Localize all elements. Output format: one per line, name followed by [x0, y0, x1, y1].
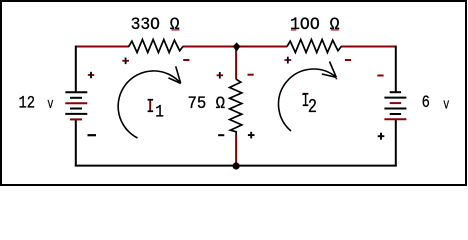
wire left rail bottom (battery B1 negative lead) — [75, 119, 77, 166]
polarity + at battery B1 top — [88, 72, 94, 78]
polarity + at R3 left — [284, 57, 291, 64]
polarity + at battery B2 bottom — [378, 133, 385, 140]
polarity - at R3 right — [345, 59, 351, 61]
junction node 2 dot (top) — [233, 42, 241, 51]
wire node 2 to R3 — [236, 46, 287, 48]
wire R1 to node 2 — [183, 46, 237, 48]
polarity + at R1 left — [122, 58, 129, 65]
polarity - at R2 top-right — [248, 74, 254, 76]
border frame — [1, 1, 466, 185]
svg-text:1: 1 — [155, 101, 164, 122]
red artifact under 330 ohm label — [172, 29, 180, 30]
svg-text:75 Ω: 75 Ω — [188, 93, 226, 113]
red artifact under 100 ohm label digit 1 — [291, 29, 297, 30]
junction node dot (bottom) — [233, 162, 240, 169]
resistor R3 100 ohm zigzag — [287, 40, 341, 53]
resistor R1 330 ohm zigzag — [129, 40, 183, 53]
battery B1 (12 V) plates — [65, 92, 87, 119]
wire node 2 to R2 top — [235, 47, 237, 80]
svg-text:12: 12 — [19, 93, 36, 113]
mesh arrow I1 (left loop, clockwise) — [118, 66, 181, 138]
wire left rail top (battery B1 positive lead) — [75, 46, 77, 93]
svg-text:6: 6 — [422, 93, 430, 113]
mesh arrow I2 (right loop, clockwise) — [279, 62, 338, 132]
label I2 — [302, 90, 317, 119]
svg-text:1OO Ω: 1OO Ω — [290, 16, 340, 36]
polarity + at R2 top-left — [217, 72, 223, 78]
polarity - at battery B2 top — [377, 75, 383, 77]
wire R2 bottom to bottom rail — [235, 135, 237, 166]
battery B2 (6 V) plates — [384, 92, 406, 119]
polarity - at R1 right — [183, 59, 189, 61]
wire bottom rail — [75, 165, 397, 167]
wire top-left (node 1 to R1) — [76, 46, 129, 48]
svg-text:2: 2 — [308, 96, 317, 118]
svg-text:V: V — [48, 99, 54, 112]
resistor R2 75 ohm vertical zigzag — [230, 79, 242, 135]
red artifact under 100 ohm label omega — [331, 29, 339, 30]
wire R3 to node 3 — [341, 46, 396, 48]
label I1 — [146, 96, 163, 122]
polarity - at battery B1 bottom — [88, 134, 97, 136]
wire right rail top (battery B2 lead) — [395, 46, 397, 93]
polarity + at R2 bottom-right — [248, 132, 255, 139]
svg-text:V: V — [444, 99, 450, 112]
svg-text:33O Ω: 33O Ω — [131, 16, 180, 36]
wire right rail bottom (battery B2 lead) — [395, 119, 397, 166]
polarity - at R2 bottom-left — [218, 134, 224, 136]
